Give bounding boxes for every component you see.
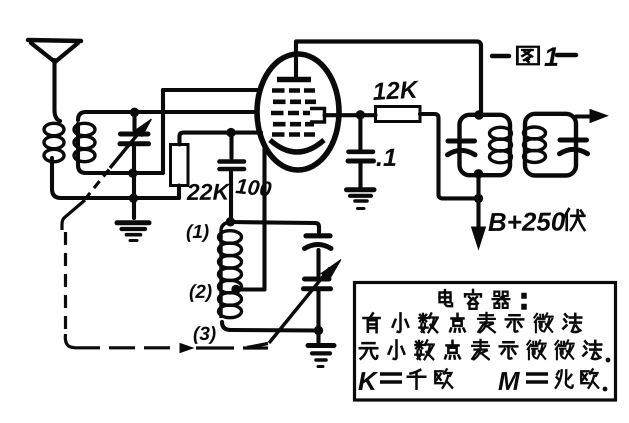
svg-text:B+250: B+250 bbox=[488, 206, 566, 237]
svg-text:100: 100 bbox=[234, 174, 272, 202]
svg-text:(1): (1) bbox=[186, 222, 209, 243]
svg-text:22K: 22K bbox=[186, 179, 231, 205]
svg-text:K: K bbox=[358, 366, 379, 396]
svg-text:.1: .1 bbox=[376, 144, 397, 172]
svg-text:M: M bbox=[498, 366, 521, 396]
svg-text:12K: 12K bbox=[372, 77, 421, 106]
svg-text:(2): (2) bbox=[189, 282, 212, 303]
svg-text:1: 1 bbox=[544, 42, 559, 72]
svg-text:(3): (3) bbox=[193, 324, 216, 345]
